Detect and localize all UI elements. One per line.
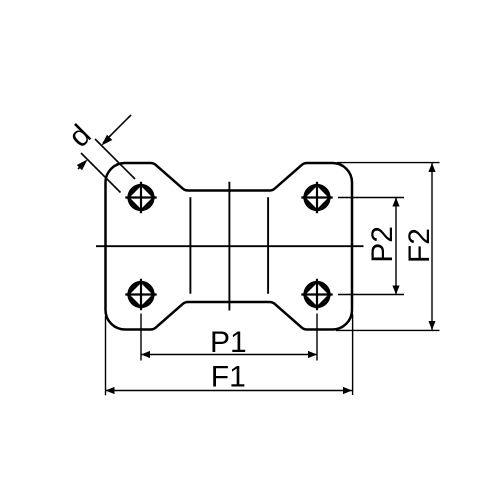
P2 dimension line (392, 198, 399, 295)
bend line left (189, 197, 191, 294)
d extension line upper (95, 139, 135, 179)
P1 extension line right (316, 314, 318, 361)
F1 dimension line (106, 387, 353, 394)
plate outline (105, 163, 352, 330)
bend line right (267, 197, 269, 294)
F2 extension line top (337, 162, 440, 164)
svg-text:d: d (62, 119, 97, 154)
F2 extension line bottom (336, 329, 440, 331)
hole top-right (301, 182, 332, 213)
F1 extension line left (105, 316, 107, 395)
svg-text:P1: P1 (210, 326, 247, 359)
svg-text:P2: P2 (366, 226, 399, 263)
hole bottom-right (301, 279, 332, 310)
hole top-left (125, 182, 156, 213)
F1 extension line right (352, 314, 354, 395)
P2 extension line bottom (338, 294, 404, 296)
P1 dimension line (141, 351, 317, 358)
P2 extension line top (338, 197, 404, 199)
d leader upper with arrow (102, 115, 132, 146)
d extension line lower (81, 153, 121, 193)
horizontal centerline (96, 245, 364, 247)
svg-text:F2: F2 (403, 228, 436, 263)
hole bottom-left (125, 279, 156, 310)
svg-text:F1: F1 (211, 361, 246, 394)
P1 extension line left (140, 314, 142, 361)
vertical centerline (228, 182, 230, 311)
F2 dimension line (428, 163, 435, 330)
d leader lower with arrow (77, 160, 88, 171)
